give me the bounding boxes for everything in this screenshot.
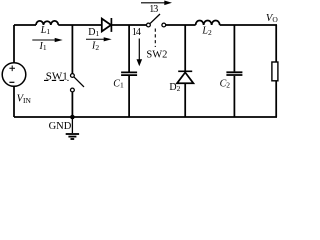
capacitor C2 <box>226 72 242 75</box>
inductor L2 <box>196 20 220 25</box>
diode D1 <box>102 18 112 32</box>
capacitor C1 <box>121 72 137 75</box>
wire load branch upper <box>275 25 277 62</box>
svg-text:SW2: SW2 <box>146 49 167 60</box>
diode D2 <box>177 71 193 83</box>
wire C2 branch lower <box>233 76 235 117</box>
wire D2 branch lower <box>184 83 186 117</box>
svg-text:C2: C2 <box>220 78 231 89</box>
wire SW1 branch upper <box>71 25 73 74</box>
wire bottom rail <box>14 116 277 118</box>
svg-text:I2: I2 <box>91 41 99 52</box>
svg-text:I1: I1 <box>39 41 47 52</box>
wire D2 branch upper <box>184 25 186 71</box>
svg-text:VIN: VIN <box>17 94 32 105</box>
wire top rail L2 to right corner <box>220 24 277 26</box>
wire C1 branch lower <box>128 76 130 117</box>
switch SW1 <box>44 74 84 92</box>
voltage source plus sign <box>9 66 15 72</box>
wire top rail SW2 to L2 <box>166 24 196 26</box>
wire C2 branch upper <box>233 25 235 71</box>
svg-text:14: 14 <box>132 27 141 38</box>
arrow I1 <box>32 38 62 42</box>
svg-text:VO: VO <box>266 13 278 24</box>
node GND junction dot <box>70 115 75 120</box>
wire top rail D1 to SW2 <box>111 24 146 26</box>
wire left branch lower <box>13 86 15 117</box>
switch SW2 <box>147 14 166 47</box>
svg-text:C1: C1 <box>113 78 124 89</box>
arrow I3 <box>141 1 172 6</box>
voltage source VIN <box>2 63 26 87</box>
wire top rail L1 to D1 <box>58 24 102 26</box>
wire top rail left segment <box>14 24 36 26</box>
arrow I2 <box>86 37 112 41</box>
svg-text:L2: L2 <box>201 26 212 37</box>
svg-text:GND: GND <box>49 121 72 132</box>
svg-text:13: 13 <box>149 4 158 15</box>
resistor load <box>272 62 278 81</box>
ground <box>66 117 79 139</box>
inductor L1 <box>36 21 58 25</box>
svg-text:D2: D2 <box>169 82 180 93</box>
svg-text:L1: L1 <box>40 25 51 36</box>
svg-text:D1: D1 <box>88 27 99 38</box>
voltage source minus sign <box>9 81 14 83</box>
wire C1 branch upper <box>128 25 130 72</box>
wire SW1 branch lower <box>71 92 73 117</box>
arrow I4 <box>137 39 143 67</box>
wire load branch lower <box>275 81 277 117</box>
wire left branch upper <box>13 25 15 63</box>
svg-text:SW1: SW1 <box>46 70 68 82</box>
